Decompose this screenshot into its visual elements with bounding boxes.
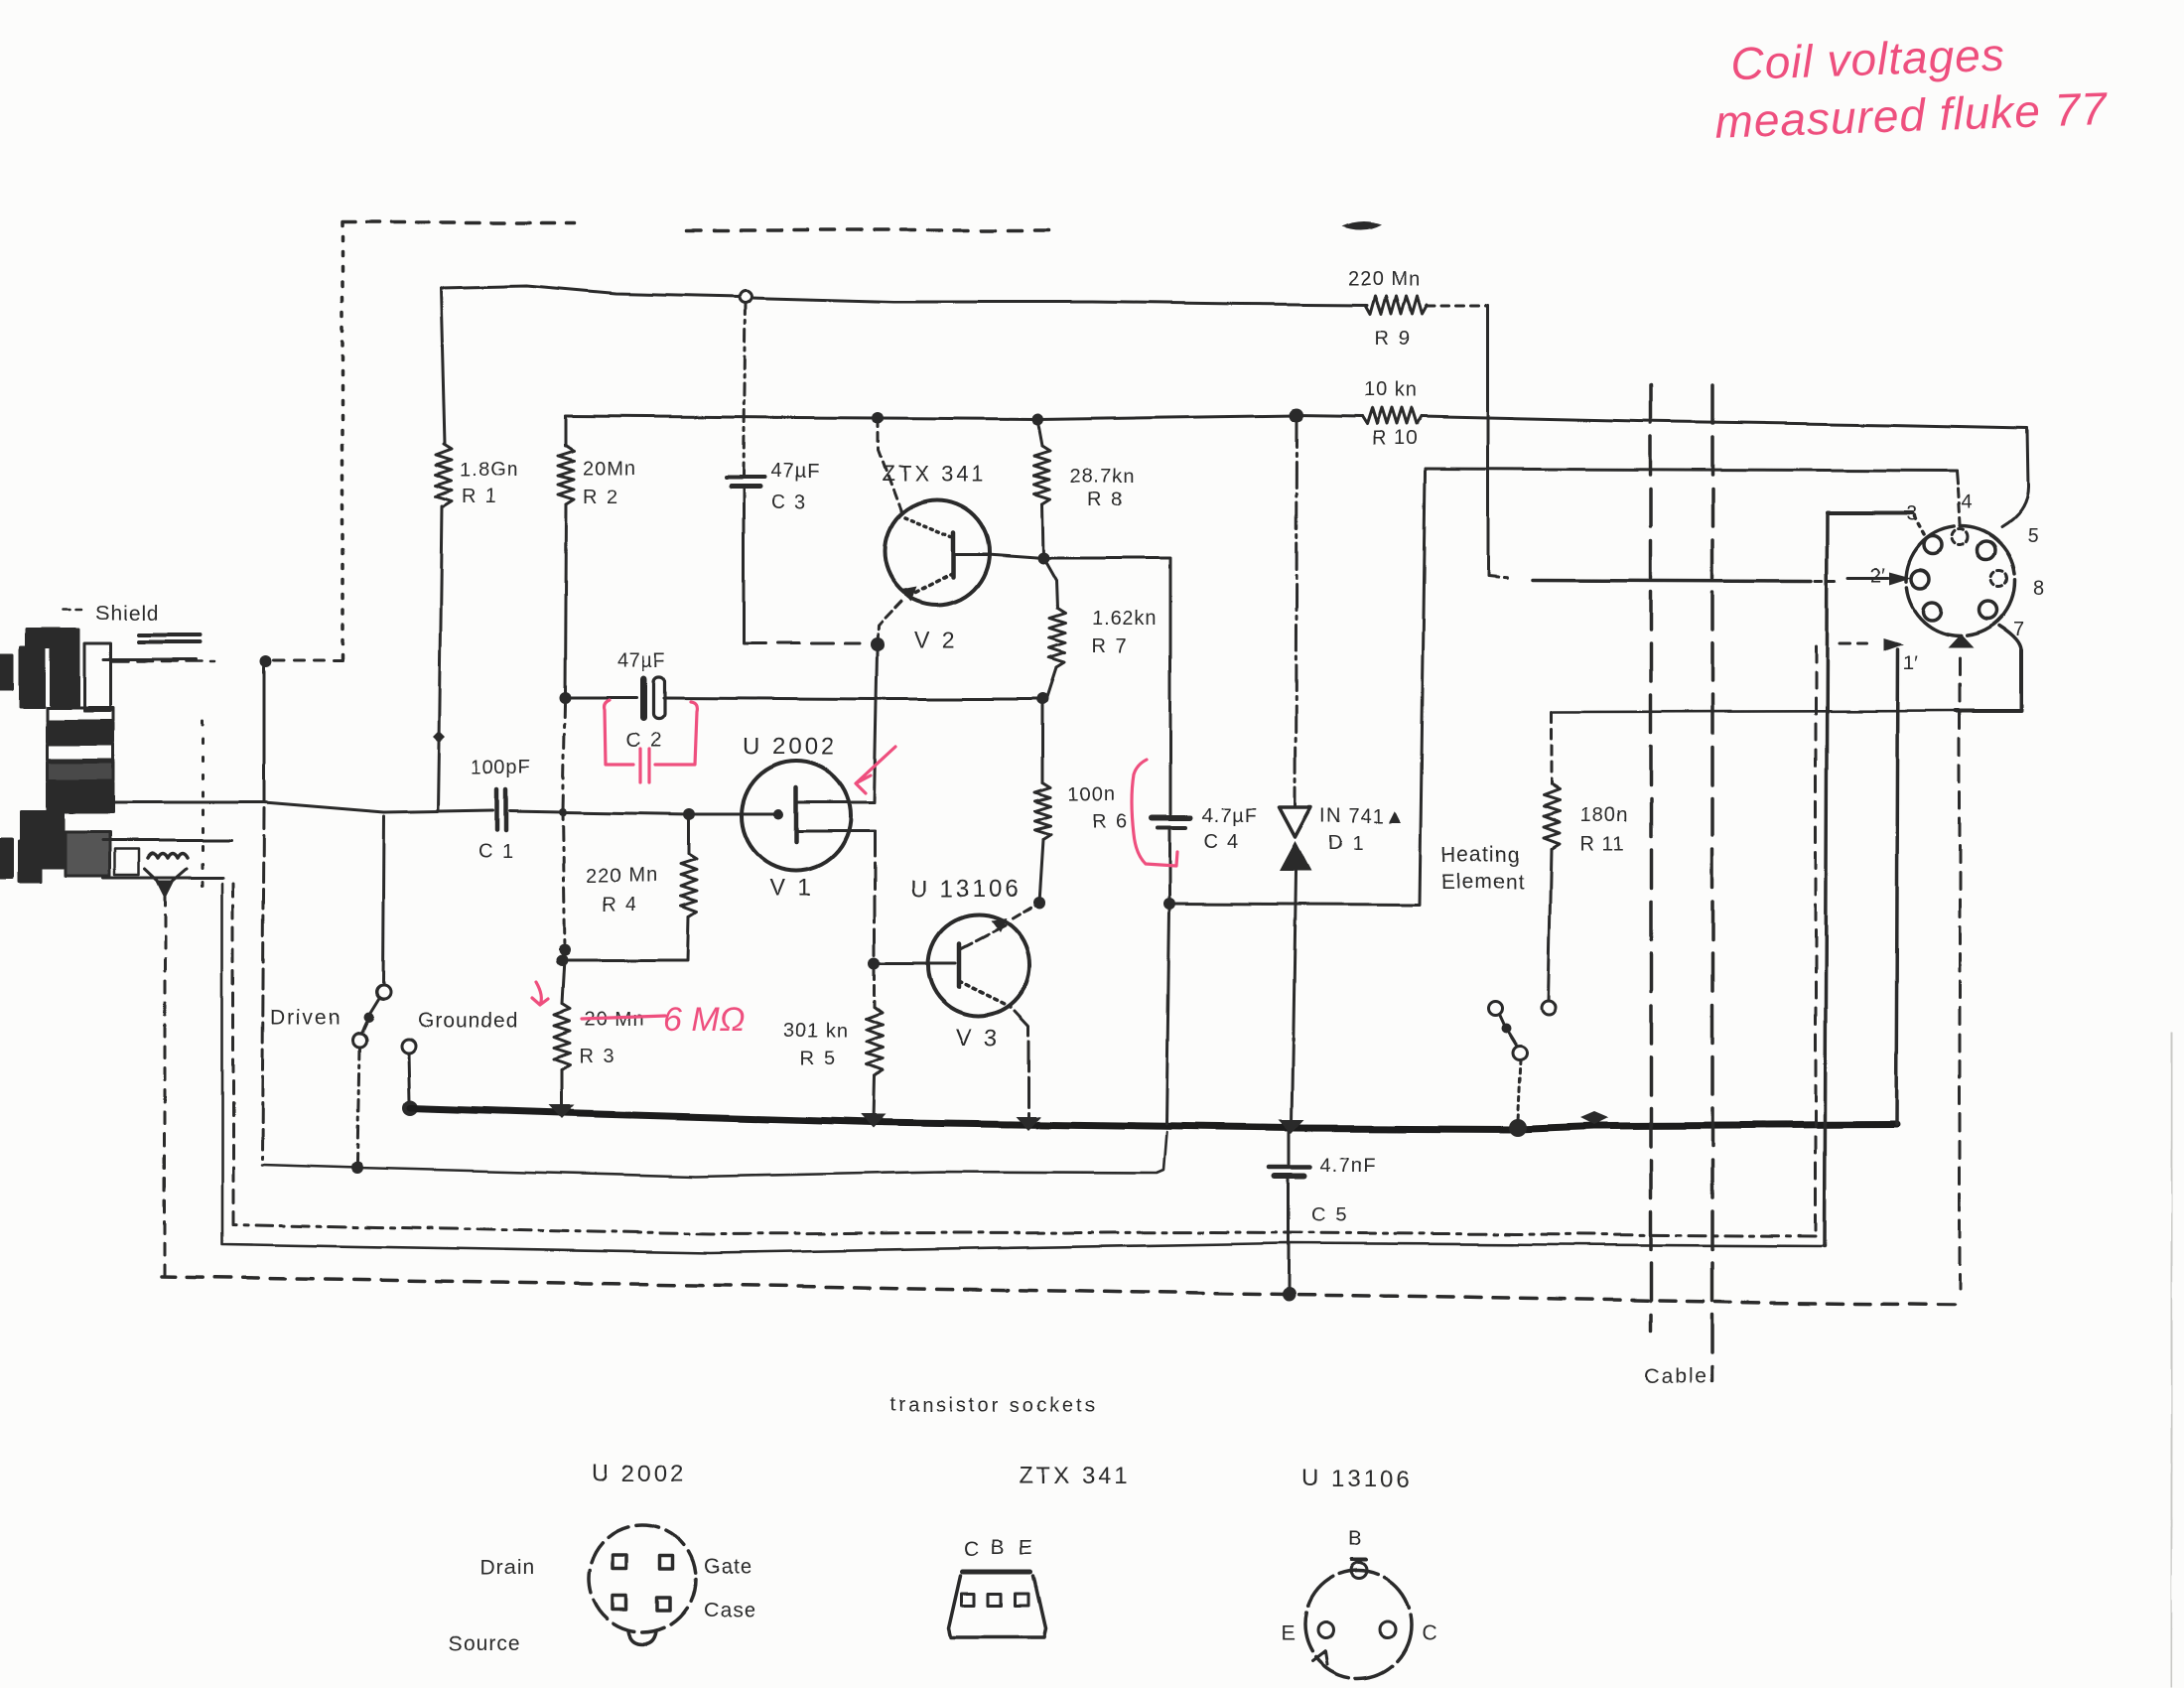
svg-text:D 1: D 1 bbox=[1328, 832, 1365, 854]
wire to connector pin 2 bbox=[1488, 576, 1509, 578]
wire bus1 node down to C3 bbox=[744, 303, 746, 476]
pink strikethrough 20Mn bbox=[582, 1016, 665, 1019]
resistor R11 bbox=[1544, 784, 1560, 849]
wire bus2 second rail bbox=[565, 415, 1362, 419]
svg-text:U 13106: U 13106 bbox=[1301, 1466, 1413, 1492]
svg-text:IN 741▲: IN 741▲ bbox=[1320, 805, 1406, 827]
svg-text:100pF: 100pF bbox=[471, 757, 532, 778]
wire V2 emitter down to node bbox=[878, 602, 901, 644]
svg-text:transistor sockets: transistor sockets bbox=[889, 1394, 1098, 1416]
svg-text:R 9: R 9 bbox=[1375, 328, 1412, 350]
pink bracket around C2 bbox=[605, 700, 633, 765]
svg-text:Shield: Shield bbox=[95, 602, 159, 625]
svg-text:Heating: Heating bbox=[1441, 844, 1520, 867]
svg-text:10 kn: 10 kn bbox=[1364, 379, 1418, 401]
switch heater bbox=[1542, 1001, 1556, 1015]
wire input line down to Driven switch bbox=[383, 816, 384, 985]
svg-text:301 kn: 301 kn bbox=[783, 1020, 849, 1042]
wire C2 right to R7/R6 node bbox=[663, 698, 1043, 699]
resistor R9 bbox=[1365, 296, 1427, 314]
svg-text:Cable: Cable bbox=[1644, 1364, 1708, 1387]
svg-text:47µF: 47µF bbox=[616, 649, 666, 671]
svg-text:Drain: Drain bbox=[480, 1556, 535, 1579]
wire R2 to C2 node bbox=[565, 504, 566, 697]
svg-text:U 13106: U 13106 bbox=[910, 876, 1022, 903]
resistor R2 bbox=[564, 416, 567, 446]
capacitor C3 bbox=[726, 476, 765, 480]
svg-text:6 MΩ: 6 MΩ bbox=[663, 1001, 746, 1039]
wire C3 down and right to V2 emitter node bbox=[743, 487, 746, 642]
svg-text:2′: 2′ bbox=[1870, 565, 1885, 587]
dashed link probe to box bbox=[274, 659, 342, 662]
ground bus heavy line bbox=[402, 1100, 418, 1116]
capacitor C1 bbox=[497, 789, 506, 830]
svg-text:R 1: R 1 bbox=[462, 487, 498, 508]
svg-text:220 Mn: 220 Mn bbox=[586, 865, 658, 887]
probe tip bbox=[145, 869, 187, 888]
wire to connector pin4 bbox=[1426, 469, 1957, 471]
pink arrow at V1 bbox=[856, 747, 895, 793]
svg-text:R 4: R 4 bbox=[602, 894, 638, 915]
svg-text:5: 5 bbox=[2027, 525, 2038, 547]
svg-text:B: B bbox=[1348, 1527, 1362, 1550]
wire R1 down to input line bbox=[438, 506, 442, 810]
resistor R6 bbox=[1042, 699, 1045, 782]
svg-text:Coil voltages: Coil voltages bbox=[1730, 29, 2006, 90]
switch Driven bbox=[376, 985, 390, 999]
wire shield line to probe (lower solid) bbox=[222, 884, 1825, 1253]
svg-text:Element: Element bbox=[1441, 871, 1525, 894]
connector circular socket bbox=[1906, 526, 2015, 635]
svg-text:1.62kn: 1.62kn bbox=[1092, 608, 1158, 630]
svg-text:4: 4 bbox=[1961, 492, 1972, 513]
dashed guard return line bbox=[1815, 646, 1818, 1231]
svg-text:C: C bbox=[964, 1538, 979, 1561]
svg-text:C 2: C 2 bbox=[626, 730, 663, 752]
wire riser to C4 node (crosses ground bus) bbox=[1166, 910, 1169, 1124]
scan edge artifact bbox=[2171, 1033, 2172, 1688]
wire R2 node down through input line to R3 bbox=[563, 703, 565, 949]
svg-text:180n: 180n bbox=[1580, 804, 1629, 826]
wire pin3 shield down-left bbox=[1825, 513, 1828, 1246]
svg-text:ZTX 341: ZTX 341 bbox=[1019, 1463, 1131, 1489]
svg-text:R 6: R 6 bbox=[1092, 811, 1129, 833]
svg-text:V 3: V 3 bbox=[956, 1025, 1001, 1052]
resistor R5 bbox=[874, 969, 877, 1007]
svg-text:Gate: Gate bbox=[704, 1555, 753, 1578]
svg-text:4.7µF: 4.7µF bbox=[1201, 805, 1258, 827]
resistor R4 bbox=[688, 820, 691, 854]
wire C4 node to heater vertical bbox=[1169, 469, 1426, 905]
capacitor C4 bbox=[1169, 564, 1172, 814]
node C3 tap (open circle) bbox=[740, 291, 751, 303]
svg-text:3: 3 bbox=[1906, 503, 1917, 525]
wire bus2 right to connector notch bbox=[1422, 416, 2027, 428]
svg-text:V 2: V 2 bbox=[914, 627, 958, 652]
wire bus1 corner down to R1 bbox=[441, 288, 445, 444]
svg-text:Grounded: Grounded bbox=[418, 1009, 518, 1032]
wire pin1 guard down bbox=[1896, 649, 1898, 1125]
svg-text:U 2002: U 2002 bbox=[592, 1461, 686, 1487]
wire guard rail from probe shield bbox=[263, 667, 266, 802]
svg-text:R 10: R 10 bbox=[1372, 428, 1418, 450]
svg-text:Source: Source bbox=[449, 1632, 521, 1655]
wire R9 to corner (dash) bbox=[1427, 305, 1488, 308]
svg-text:U 2002: U 2002 bbox=[743, 734, 837, 761]
resistor R1 bbox=[436, 444, 452, 506]
dashed box bottom bbox=[1959, 658, 1962, 1289]
resistor R8 bbox=[1037, 419, 1042, 446]
wire R11 down to switch bbox=[1549, 849, 1552, 1001]
diode D1 zener bbox=[1296, 421, 1297, 807]
wire V2 collector to bus2 bbox=[879, 418, 903, 516]
svg-text:C 4: C 4 bbox=[1203, 831, 1240, 853]
wire R8 node to C4 top bbox=[1043, 558, 1170, 571]
connector pin numbers bbox=[1870, 492, 2044, 674]
pink arrow at R3 bbox=[532, 982, 548, 1005]
svg-text:C 3: C 3 bbox=[771, 492, 808, 513]
svg-text:R 5: R 5 bbox=[800, 1048, 837, 1069]
wire R9 corner down bbox=[1487, 306, 1490, 575]
svg-text:28.7kn: 28.7kn bbox=[1070, 466, 1136, 488]
capacitor C5 bbox=[1289, 1129, 1292, 1164]
svg-text:R 7: R 7 bbox=[1092, 635, 1129, 657]
wire V1 source down to V3 base bbox=[874, 831, 877, 963]
svg-text:R 2: R 2 bbox=[583, 487, 619, 508]
svg-text:47µF: 47µF bbox=[771, 461, 821, 483]
svg-text:E: E bbox=[1019, 1536, 1032, 1559]
ink blob above R9 bbox=[1342, 221, 1382, 230]
svg-text:1′: 1′ bbox=[1903, 652, 1918, 674]
transistor V2 ZTX341 bbox=[885, 499, 990, 605]
svg-text:C 5: C 5 bbox=[1311, 1204, 1348, 1226]
transistor V1 U2002 FET bbox=[742, 762, 851, 871]
svg-text:ZTX 341: ZTX 341 bbox=[882, 461, 986, 486]
resistor R10 bbox=[1362, 408, 1422, 424]
svg-text:220 Mn: 220 Mn bbox=[1348, 268, 1421, 290]
svg-text:20Mn: 20Mn bbox=[583, 458, 636, 480]
wire V3 emitter down to ground bus bbox=[1015, 1011, 1028, 1122]
svg-text:7: 7 bbox=[2013, 619, 2024, 640]
transistor V3 U13106 bbox=[928, 914, 1029, 1016]
cable marker lines bbox=[1649, 385, 1653, 1331]
connector bottom arrow bbox=[1948, 633, 1974, 647]
resistor R3 bbox=[554, 1004, 570, 1069]
switch Grounded bbox=[401, 1039, 415, 1053]
wire bus1 top rail bbox=[441, 286, 740, 297]
wire connector notch to R11 bbox=[1956, 650, 2021, 711]
svg-text:C 1: C 1 bbox=[478, 841, 515, 863]
svg-text:R 11: R 11 bbox=[1580, 833, 1625, 855]
svg-text:4.7nF: 4.7nF bbox=[1320, 1155, 1376, 1177]
wire to connector pin 3 bbox=[1828, 511, 1912, 515]
svg-text:B: B bbox=[991, 1536, 1005, 1559]
svg-text:R 3: R 3 bbox=[579, 1046, 615, 1067]
probe transducer cross-section bbox=[0, 630, 231, 896]
svg-text:E: E bbox=[1281, 1622, 1295, 1645]
wire V3 collector to R6 bbox=[1013, 903, 1039, 918]
wire C1 to V1 gate bbox=[510, 811, 773, 814]
svg-text:Driven: Driven bbox=[270, 1006, 342, 1029]
resistor R7 bbox=[1043, 558, 1057, 609]
svg-text:R 8: R 8 bbox=[1088, 490, 1125, 511]
svg-text:100n: 100n bbox=[1068, 783, 1117, 805]
svg-text:C: C bbox=[1422, 1621, 1436, 1644]
wire probe centre electrode to C1 bbox=[112, 802, 493, 812]
svg-text:measured fluke 77: measured fluke 77 bbox=[1714, 82, 2109, 148]
pink loop at C4 bbox=[1132, 760, 1177, 866]
svg-text:Case: Case bbox=[704, 1599, 756, 1621]
connector pin holes bbox=[1924, 536, 1942, 554]
dashed shield box (top) bbox=[341, 223, 344, 658]
pink note coil voltages bbox=[1712, 25, 2109, 148]
wire V1 drain up to emitter node bbox=[875, 651, 878, 802]
svg-text:V 1: V 1 bbox=[769, 875, 814, 902]
svg-text:8: 8 bbox=[2033, 578, 2044, 600]
svg-text:1.8Gn: 1.8Gn bbox=[460, 460, 518, 482]
dashed link pin1 bbox=[1840, 642, 1867, 645]
capacitor C2 bbox=[565, 696, 636, 699]
